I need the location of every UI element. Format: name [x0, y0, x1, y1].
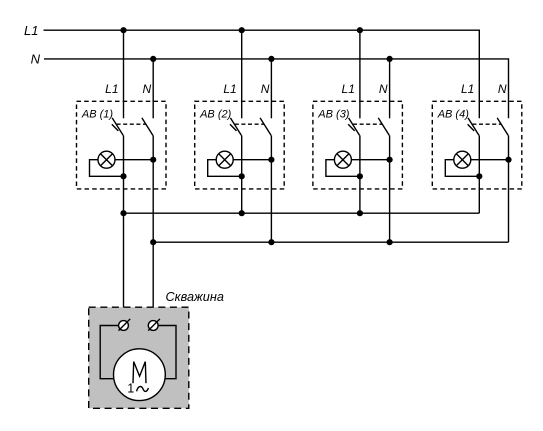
lamp wire to N (box 2): [233, 159, 271, 161]
switch pole L1 of AB4: [468, 118, 479, 135]
wire L1 below switch box 2: [241, 135, 243, 213]
switch pole N of AB2: [260, 118, 271, 135]
junction bus L1 / box 3: [357, 210, 363, 216]
svg-text:N: N: [261, 82, 270, 96]
junction L1 tap 1: [120, 27, 126, 33]
switch pole L1 of AB1: [112, 118, 123, 135]
trip mark of AB3: [348, 124, 355, 131]
junction N tap 3: [387, 56, 393, 62]
breaker AB3 enclosure (dashed): [313, 101, 403, 189]
breaker AB4 enclosure (dashed): [432, 101, 522, 189]
junction bus L1 / box 1: [120, 210, 126, 216]
svg-text:L1: L1: [461, 82, 474, 96]
lamp wire to N (box 4): [471, 159, 509, 161]
svg-text:N: N: [498, 82, 507, 96]
motor M1 body: [113, 349, 165, 401]
junction lamp-L1 box 3: [357, 173, 363, 179]
svg-text:N: N: [379, 82, 388, 96]
wire N below switch box 2: [270, 135, 272, 242]
well enclosure (gray, dashed): [89, 307, 189, 408]
svg-text:АВ (3): АВ (3): [317, 109, 350, 121]
svg-text:L1: L1: [24, 23, 38, 38]
wire N tap to box 2: [270, 59, 272, 118]
terminal X2: [148, 319, 160, 331]
svg-text:АВ (1): АВ (1): [81, 109, 114, 121]
wire L1 tap to box 1: [123, 30, 125, 118]
breaker AB1 enclosure (dashed): [77, 101, 167, 189]
net L1 feeder line: [44, 30, 480, 118]
net N feeder line: [44, 59, 509, 118]
wire L1 below switch box 1: [123, 135, 125, 320]
junction lamp-N box 1: [150, 157, 156, 163]
svg-text:N: N: [143, 82, 152, 96]
switch pole N of AB3: [378, 118, 389, 135]
junction bus N / box 2: [268, 239, 274, 245]
mechanical link of AB4 (dashed): [472, 123, 501, 125]
junction L1 tap 2: [239, 27, 245, 33]
junction N tap 2: [268, 56, 274, 62]
wire N tap to box 3: [389, 59, 391, 118]
motor letter М: [133, 362, 146, 384]
lamp loop wire to L1 (box 2): [208, 160, 242, 177]
junction lamp-L1 box 1: [120, 173, 126, 179]
lamp HL4: [454, 151, 471, 168]
lamp loop wire to L1 (box 3): [326, 160, 360, 177]
junction lamp-N box 4: [505, 157, 511, 163]
switch pole L1 of AB2: [230, 118, 241, 135]
breaker AB2 enclosure (dashed): [195, 101, 285, 189]
lamp wire to N (box 1): [115, 159, 153, 161]
svg-text:1: 1: [127, 382, 134, 396]
mechanical link of AB3 (dashed): [353, 123, 382, 125]
motor feed wire left (L1): [100, 326, 123, 379]
wire L1 below switch box 4: [478, 135, 480, 213]
lamp wire to N (box 3): [351, 159, 389, 161]
switch pole L1 of AB3: [349, 118, 360, 135]
svg-text:Скважина: Скважина: [166, 290, 224, 304]
lamp loop wire to L1 (box 1): [90, 160, 124, 177]
terminal X1: [119, 319, 131, 331]
motor feed wire right (N): [153, 326, 176, 379]
svg-text:L1: L1: [105, 82, 118, 96]
junction lamp-N box 2: [268, 157, 274, 163]
trip mark of AB4: [468, 124, 475, 131]
bus L1 out: [124, 212, 480, 214]
trip mark of AB1: [112, 124, 119, 131]
wire L1 tap to box 3: [359, 30, 361, 118]
junction lamp-L1 box 4: [476, 173, 482, 179]
svg-text:АВ (2): АВ (2): [199, 109, 232, 121]
mechanical link of AB1 (dashed): [117, 123, 146, 125]
wire N below switch box 4: [508, 135, 510, 242]
lamp loop wire to L1 (box 4): [445, 160, 479, 177]
junction L1 tap 3: [357, 27, 363, 33]
motor tilde: [137, 387, 149, 392]
svg-text:АВ (4): АВ (4): [437, 109, 470, 121]
mechanical link of AB2 (dashed): [235, 123, 264, 125]
trip mark of AB2: [230, 124, 237, 131]
junction bus N / box 3: [387, 239, 393, 245]
junction bus L1 / box 2: [239, 210, 245, 216]
svg-text:L1: L1: [342, 82, 355, 96]
junction bus N / box 1: [150, 239, 156, 245]
lamp HL3: [334, 151, 351, 168]
lamp HL1: [98, 151, 115, 168]
lamp HL2: [216, 151, 233, 168]
junction lamp-N box 3: [387, 157, 393, 163]
switch pole N of AB4: [497, 118, 508, 135]
wire N below switch box 1: [152, 135, 154, 320]
svg-text:L1: L1: [223, 82, 236, 96]
wire N tap to box 1: [152, 59, 154, 118]
junction N tap 1: [150, 56, 156, 62]
junction lamp-L1 box 2: [239, 173, 245, 179]
switch pole N of AB1: [142, 118, 153, 135]
wire L1 below switch box 3: [359, 135, 361, 213]
wire N below switch box 3: [389, 135, 391, 242]
svg-text:N: N: [31, 51, 41, 66]
bus N out: [153, 241, 508, 243]
wire L1 tap to box 2: [241, 30, 243, 118]
